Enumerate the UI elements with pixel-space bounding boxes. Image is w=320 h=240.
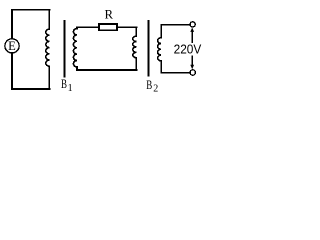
transformer B2 core (147, 21, 149, 75)
svg-text:1: 1 (68, 83, 73, 94)
terminal top (190, 22, 195, 27)
wire: left loop top (12, 9, 49, 11)
inductor L4 (secondary of B2) (158, 25, 162, 73)
inductor L3 (primary of B2) (133, 27, 137, 70)
wire: left loop left side upper (11, 10, 13, 39)
svg-text:B: B (146, 78, 152, 92)
wire: left loop bottom (12, 88, 49, 90)
wire: output bottom (161, 72, 190, 74)
svg-text:2: 2 (153, 84, 158, 95)
wire: middle loop top left (77, 26, 99, 28)
resistor R (99, 24, 117, 30)
arrow shaft upper (191, 31, 193, 43)
wire: left loop left side lower (11, 53, 13, 89)
wire: middle loop bottom (77, 69, 136, 71)
wire: middle loop top right (117, 26, 136, 28)
svg-text:R: R (105, 7, 114, 21)
transformer B1 core (64, 21, 66, 76)
battery E (5, 39, 19, 53)
arrowhead up (190, 28, 194, 32)
inductor L1 (primary of B1) (46, 10, 50, 89)
terminal bottom (190, 70, 195, 75)
wire: output top (161, 24, 190, 26)
arrowhead down (190, 65, 194, 69)
inductor L2 (secondary of B1) (73, 27, 77, 70)
svg-text:E: E (8, 39, 16, 53)
svg-text:B: B (61, 77, 67, 91)
svg-text:220V: 220V (174, 42, 202, 56)
arrow shaft lower (191, 56, 193, 66)
